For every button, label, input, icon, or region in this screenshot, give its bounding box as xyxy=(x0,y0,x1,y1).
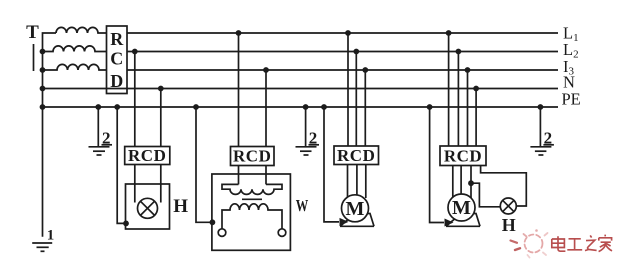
RCD5 feed wire from N xyxy=(475,89,477,147)
junction L3 RCD5 xyxy=(465,67,471,73)
label W xyxy=(296,196,309,215)
junction L2 RCD2 xyxy=(132,49,138,55)
RCD5 box xyxy=(440,146,486,166)
junction RCD5 output lamp tap xyxy=(468,180,474,186)
wire line L3 xyxy=(127,69,558,71)
RCD4 output wires to motor M1 xyxy=(348,165,366,199)
label L3 xyxy=(563,57,575,78)
svg-text:R: R xyxy=(110,29,124,49)
junction L1 RCD4 xyxy=(345,30,351,36)
junction star-point L2 xyxy=(40,49,46,55)
junction L2 RCD5 xyxy=(456,49,462,55)
junction lamp box PE corner xyxy=(123,221,129,227)
junction star-point L3 xyxy=(40,67,46,73)
label L2 xyxy=(563,40,579,61)
svg-text:RCD: RCD xyxy=(444,147,482,166)
RCD2 feed wire from L2 xyxy=(134,52,136,147)
junction PE lamp box xyxy=(114,104,120,110)
RCD5 feed wire from L1 xyxy=(448,33,450,146)
transformer winding L1 xyxy=(56,27,107,33)
motor M1 xyxy=(342,195,369,222)
ground 2a drop wire xyxy=(97,107,99,147)
PE arrow motor M2 xyxy=(445,219,454,227)
junction N RCD5 xyxy=(473,86,479,92)
lamp H1 enclosure box xyxy=(126,184,170,229)
wire lamp H2 right from RCD5 N output xyxy=(481,166,527,207)
RCD4 feed wire from L1 xyxy=(347,33,349,146)
label N xyxy=(563,72,575,91)
ground 2c drop wire xyxy=(539,107,541,147)
RCD3 box xyxy=(231,147,275,166)
motor M2 xyxy=(448,194,475,221)
junction L3 RCD4 xyxy=(362,67,368,73)
wire lamp H2 left xyxy=(471,183,500,207)
junction PE ground2b xyxy=(303,104,309,110)
svg-text:PE: PE xyxy=(562,89,581,108)
PE bond wire to motor M1 xyxy=(324,107,339,222)
svg-text:RCD: RCD xyxy=(128,146,166,165)
RCD2 feed wire from N xyxy=(160,89,162,147)
label H2 xyxy=(502,215,516,235)
welder output terminal left xyxy=(218,229,226,237)
welder transformer secondary xyxy=(222,204,282,229)
RCD3 output wire right xyxy=(265,166,267,185)
wire line N xyxy=(43,88,559,90)
label H1 xyxy=(173,196,188,217)
PE bond wire to lamp box xyxy=(117,107,125,223)
welder transformer core xyxy=(242,198,262,200)
transformer T bar xyxy=(33,44,35,71)
motor M2 stand xyxy=(446,214,480,227)
lamp H1 xyxy=(138,198,158,218)
wire line PE xyxy=(43,106,559,108)
svg-text:M: M xyxy=(452,197,471,219)
RCD3 output wire left xyxy=(238,166,240,185)
RCD3 feed wire from L1 xyxy=(238,33,240,147)
junction L2 RCD4 xyxy=(353,49,359,55)
junction PE motor M1 xyxy=(321,104,327,110)
wire line L2 xyxy=(127,51,558,53)
svg-text:1: 1 xyxy=(47,228,55,244)
svg-text:T: T xyxy=(26,22,39,43)
junction welder box PE corner xyxy=(210,219,216,225)
RCD2 output wire right xyxy=(160,165,162,203)
junction L1 RCD3 xyxy=(236,30,242,36)
PE bond wire to motor M2 xyxy=(430,107,444,223)
welder W enclosure box xyxy=(212,174,291,250)
ground 2b drop wire xyxy=(305,107,307,147)
junction PE welder xyxy=(193,104,199,110)
transformer winding L3 xyxy=(43,64,107,70)
svg-text:C: C xyxy=(110,49,123,69)
RCD2 box xyxy=(125,146,170,165)
svg-text:RCD: RCD xyxy=(233,147,271,166)
PE bond wire to welder box xyxy=(196,107,212,222)
watermark text gong xyxy=(567,239,582,250)
svg-text:M: M xyxy=(346,198,365,220)
junction L1 RCD5 xyxy=(446,30,452,36)
ground 1 xyxy=(32,228,54,252)
RCD4 feed wire from L3 xyxy=(364,70,366,146)
junction star-point N xyxy=(40,86,46,92)
ground 2b xyxy=(296,129,320,156)
junction N RCD2 xyxy=(158,86,164,92)
label L1 xyxy=(563,24,579,45)
label PE xyxy=(562,89,581,108)
ground 2a xyxy=(89,129,113,156)
RCD4 box xyxy=(334,146,379,165)
ground 2c xyxy=(530,129,554,156)
RCD5 feed wire from L3 xyxy=(467,70,469,146)
transformer winding L2 xyxy=(43,46,107,52)
RCD2 output wire left xyxy=(134,165,136,203)
transformer T label xyxy=(26,22,39,43)
RCD5 output wires to motor M2 xyxy=(453,166,471,199)
wire line L1 xyxy=(127,32,558,34)
PE arrow motor M1 xyxy=(340,218,349,226)
svg-text:RCD: RCD xyxy=(337,146,375,165)
welder transformer primary xyxy=(222,184,282,194)
RCD4 feed wire from L2 xyxy=(355,52,357,147)
junction PE ground2c xyxy=(538,104,544,110)
watermark logo xyxy=(511,229,548,257)
watermark text jia xyxy=(599,235,612,252)
watermark text dian xyxy=(552,236,566,251)
transformer star-point bus wire xyxy=(43,33,57,237)
junction PE motor M2 xyxy=(427,104,433,110)
svg-text:H: H xyxy=(173,196,188,217)
motor M1 stand xyxy=(340,214,374,227)
junction PE ground2a xyxy=(95,104,101,110)
svg-text:H: H xyxy=(502,215,516,235)
junction L3 RCD3 xyxy=(263,67,269,73)
RCD5 feed wire from L2 xyxy=(457,52,459,147)
svg-text:W: W xyxy=(296,196,309,215)
watermark text zhi xyxy=(585,235,597,250)
welder output terminal right xyxy=(278,229,286,237)
junction star-point PE xyxy=(40,104,46,110)
lamp H2 xyxy=(500,198,516,214)
RCD3 feed wire from L3 xyxy=(265,70,267,147)
main RCD box U1 xyxy=(107,26,128,94)
